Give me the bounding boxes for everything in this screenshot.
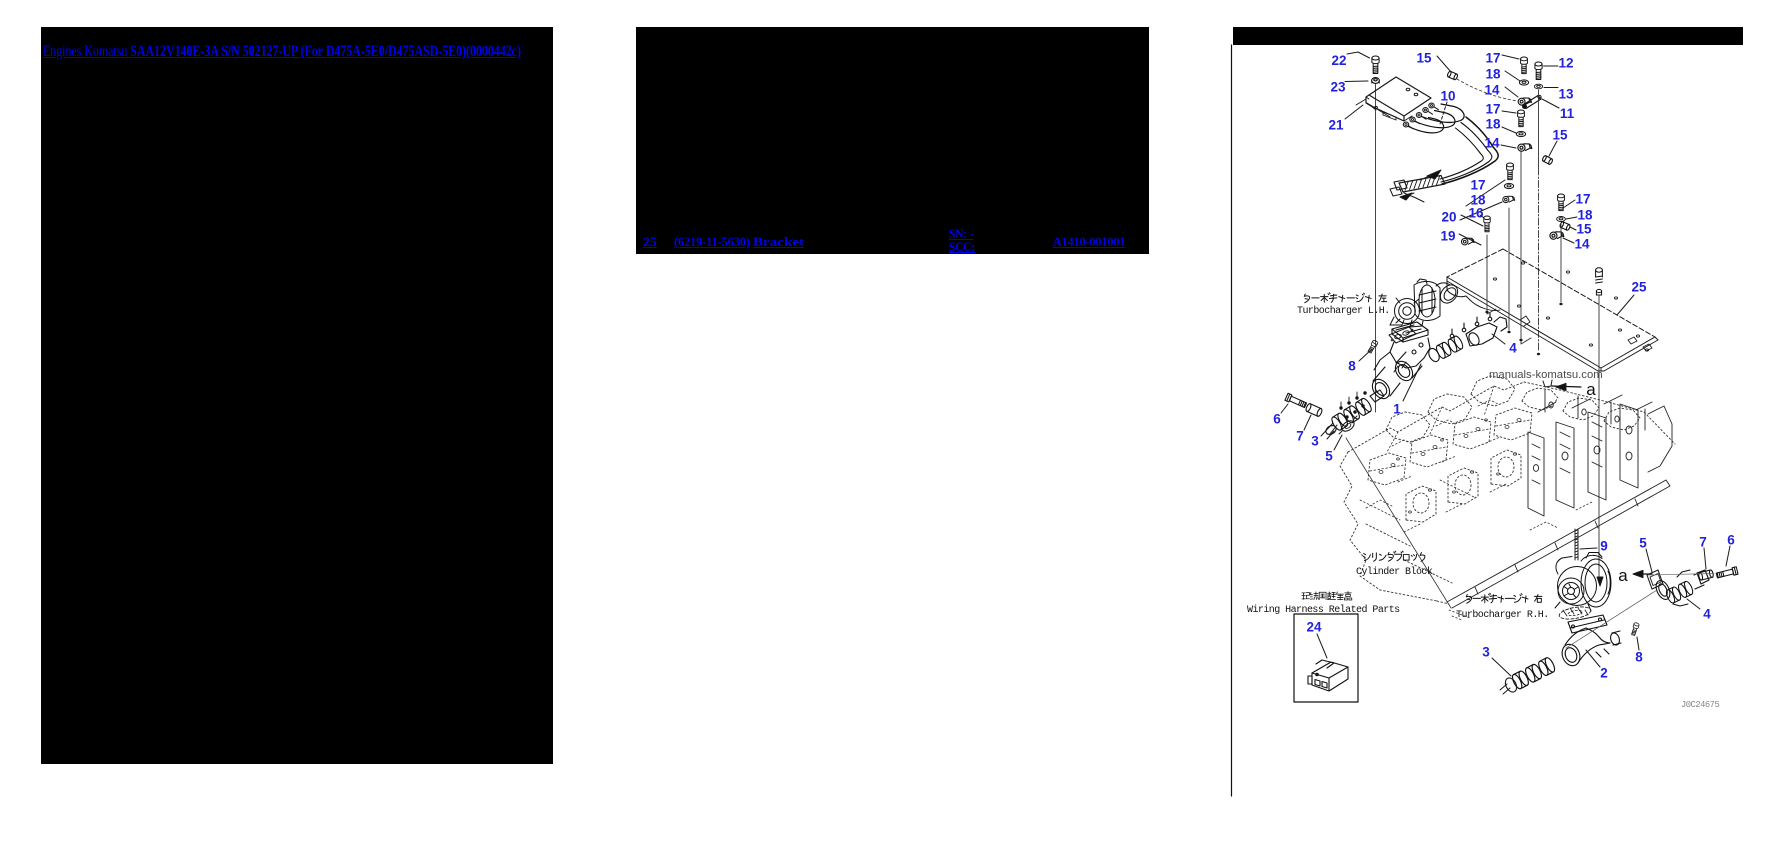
assembly line from 17b: [1520, 152, 1522, 262]
harness tail: [1404, 193, 1424, 202]
drop hook a: [1487, 309, 1496, 314]
svg-text:3: 3: [1482, 645, 1490, 660]
leader 4a: [1492, 334, 1505, 344]
svg-text:17: 17: [1575, 192, 1590, 207]
leader 15d: [1570, 227, 1576, 230]
leader 7a: [1304, 415, 1311, 430]
svg-text:14: 14: [1574, 237, 1590, 252]
washer 18d: [1557, 217, 1566, 222]
svg-text:15: 15: [1552, 128, 1568, 143]
plate left flange detail: [1447, 277, 1470, 300]
block below rail: [1449, 610, 1470, 620]
harness end connector: [1394, 180, 1407, 190]
washer 18a: [1519, 80, 1528, 85]
svg-text:17: 17: [1470, 178, 1485, 193]
sheet ref: [1053, 234, 1132, 250]
svg-text:7: 7: [1699, 535, 1707, 550]
leader 2: [1586, 650, 1600, 667]
bolt 17b: [1518, 110, 1525, 127]
bolt 17d: [1558, 194, 1565, 211]
block top right edge: [1524, 382, 1675, 444]
bracket step: [1356, 99, 1376, 110]
leader 24: [1317, 634, 1327, 658]
top black bar: [1233, 27, 1743, 45]
assembly line from 17d: [1560, 223, 1562, 256]
part link: [674, 234, 756, 250]
engine block modules: [1386, 412, 1430, 442]
section arrowhead a upper: [1556, 383, 1566, 390]
block left edge: [1340, 452, 1437, 601]
leader 19: [1459, 234, 1481, 245]
svg-text:4: 4: [1703, 607, 1711, 622]
connector 24: [1308, 660, 1348, 691]
land dots: [1486, 311, 1488, 313]
left vertical rule: [1231, 45, 1233, 796]
assembly line from 17c: [1508, 208, 1510, 272]
svg-text:24: 24: [1306, 620, 1322, 635]
leader 25: [1617, 295, 1634, 315]
svg-text:18: 18: [1485, 67, 1501, 82]
harness loop 1: [1409, 118, 1444, 133]
middle black panel: [636, 27, 1149, 254]
turbo LH: [1390, 279, 1461, 327]
svg-text:3: 3: [1311, 434, 1319, 449]
svg-text:16: 16: [1468, 206, 1484, 221]
dashed line 4b to 2: [1566, 590, 1657, 648]
harness connector strip: [1399, 176, 1445, 193]
long diagonal to block: [1346, 438, 1451, 608]
svg-text:8: 8: [1635, 650, 1643, 665]
svg-text:20: 20: [1441, 210, 1456, 225]
svg-text:15: 15: [1576, 222, 1592, 237]
pin 15d: [1559, 221, 1570, 230]
leader 14b: [1501, 145, 1516, 148]
harness loop 3: [1422, 104, 1465, 122]
dashed line 4b axis: [1648, 574, 1714, 576]
drop line c: [1520, 262, 1522, 338]
svg-text:14: 14: [1484, 136, 1500, 151]
pin 15a: [1447, 71, 1458, 80]
arrow into turbo RH: [1597, 577, 1603, 586]
bellows 3b: [1511, 656, 1557, 690]
line from stud 9: [1598, 295, 1600, 578]
bracket plate 21: [1369, 77, 1431, 116]
assembly line from 22: [1375, 84, 1377, 412]
label turbo LH jp: [1304, 293, 1386, 303]
leader 4b: [1687, 599, 1700, 609]
bolt 22: [1372, 56, 1379, 74]
bolt 16: [1484, 216, 1490, 232]
leader 5a: [1334, 435, 1342, 450]
svg-text:23: 23: [1330, 80, 1346, 95]
screw 8a: [1367, 340, 1378, 354]
leader 17c: [1466, 180, 1505, 206]
svg-text:15: 15: [1416, 51, 1432, 66]
svg-text:a: a: [1618, 566, 1628, 585]
box 24: [1294, 614, 1358, 702]
spacer 7a: [1305, 403, 1323, 417]
title link: [43, 43, 685, 61]
leader 15a: [1437, 56, 1451, 72]
bolt 6b: [1716, 567, 1738, 579]
spacer 7b: [1698, 570, 1714, 581]
svg-text:10: 10: [1440, 89, 1455, 104]
svg-text:6: 6: [1727, 533, 1735, 548]
leader 14a: [1505, 87, 1518, 97]
drop line a: [1486, 278, 1488, 310]
leader 7b: [1704, 548, 1706, 569]
leader 23: [1345, 80, 1368, 83]
block rail feet: [1475, 499, 1638, 594]
svg-text:2: 2: [1600, 666, 1608, 681]
turbo LH gasket: [1389, 327, 1416, 343]
svg-text:22: 22: [1331, 53, 1346, 68]
svg-text:11: 11: [1560, 106, 1575, 121]
stud 9 thread: [1575, 529, 1578, 560]
leader 1: [1403, 364, 1421, 401]
clamp 14a: [1517, 96, 1531, 106]
bolt 6a: [1285, 393, 1307, 408]
leader 10: [1440, 102, 1447, 124]
manifold bolt lugs: [1394, 362, 1406, 372]
harness trunk outer: [1442, 117, 1498, 184]
drop hook c: [1521, 338, 1531, 344]
svg-text:21: 21: [1328, 118, 1344, 133]
clamp 19x: [1502, 194, 1515, 203]
svg-text:1: 1: [1393, 402, 1401, 417]
section line a upper: [1552, 386, 1581, 387]
label wiring jp: [1302, 592, 1352, 600]
leader 3a: [1321, 423, 1333, 436]
clamp 5b: [1647, 570, 1663, 589]
drop line e: [1560, 256, 1562, 302]
svg-text:19: 19: [1440, 229, 1455, 244]
washer 18b: [1516, 131, 1525, 136]
harness trunk mid: [1441, 123, 1492, 183]
leader 11: [1542, 99, 1559, 108]
clamp 14d: [1549, 230, 1564, 241]
leader 18a: [1505, 71, 1520, 81]
SN / SCC: [949, 227, 979, 254]
svg-text:5: 5: [1639, 536, 1647, 551]
svg-text:17: 17: [1485, 51, 1500, 66]
block top edge: [1348, 382, 1524, 452]
leader 9: [1580, 548, 1597, 549]
manifold left chain 3: [1330, 397, 1373, 432]
harness trunk inner: [1440, 128, 1483, 179]
screw 8b: [1631, 622, 1640, 636]
washer 13: [1534, 84, 1542, 89]
svg-text:7: 7: [1296, 429, 1304, 444]
leader 22: [1347, 52, 1370, 58]
leader 20: [1461, 215, 1483, 226]
manifold center 1: [1369, 322, 1430, 402]
drop line b: [1508, 272, 1510, 330]
nut 23: [1372, 78, 1380, 84]
svg-text:a: a: [1586, 380, 1596, 399]
plate 25 outline: [1447, 249, 1503, 277]
block extra fragments: [1392, 440, 1412, 446]
block inner dotted diag: [1360, 386, 1494, 520]
leader 18b: [1502, 127, 1516, 133]
stud for section a: [1543, 380, 1552, 387]
harness terminal stubs: [1409, 126, 1414, 129]
section arrowhead a lower: [1633, 570, 1643, 577]
block bottom rail: [1447, 480, 1670, 608]
bar 11: [1523, 96, 1541, 109]
bolt 17c: [1507, 163, 1514, 180]
svg-text:25: 25: [1631, 280, 1647, 295]
stud 9 top: [1596, 268, 1603, 295]
clamp 14b: [1517, 142, 1532, 153]
connector 4b: [1665, 580, 1695, 604]
leader 17b: [1502, 111, 1516, 113]
label cylblock jp: [1363, 551, 1425, 561]
leader 6b: [1726, 546, 1730, 566]
svg-text:Turbocharger R.H.: Turbocharger R.H.: [1456, 609, 1549, 621]
pin 15b: [1542, 155, 1553, 165]
assembly line from 12: [1538, 90, 1540, 168]
label turbo RH jp: [1466, 593, 1542, 603]
gasket 5a: [1340, 419, 1356, 434]
left black panel: [41, 27, 553, 764]
turbo RH: [1555, 553, 1611, 612]
bolt 12: [1535, 62, 1542, 80]
harness terminals: [1403, 122, 1408, 127]
svg-text:J0C24675: J0C24675: [1681, 700, 1719, 710]
bracket holes: [1406, 88, 1410, 90]
svg-text:14: 14: [1484, 83, 1500, 98]
leader 6a: [1281, 404, 1288, 413]
leader 13: [1544, 87, 1558, 89]
harness arrow 2: [1400, 193, 1412, 200]
harness guide wire from 15: [1457, 79, 1517, 101]
elbow 2: [1559, 615, 1621, 668]
manifold right chain 4: [1435, 335, 1465, 360]
plate small squares: [1628, 337, 1637, 344]
svg-text:8: 8: [1348, 359, 1356, 374]
leader 17a: [1502, 55, 1519, 59]
harness loop 2: [1415, 111, 1455, 128]
leader 8b: [1637, 637, 1639, 650]
leader 12: [1544, 65, 1559, 67]
svg-text:4: 4: [1509, 341, 1517, 356]
leader 16: [1480, 215, 1484, 218]
svg-text:13: 13: [1558, 87, 1574, 102]
block lower left lines: [1366, 524, 1452, 604]
leader 18c: [1460, 202, 1502, 220]
leader 15b: [1549, 141, 1557, 156]
svg-text:12: 12: [1558, 56, 1573, 71]
clamp 19: [1461, 236, 1474, 246]
svg-text:18: 18: [1577, 208, 1593, 223]
svg-text:5: 5: [1325, 449, 1333, 464]
item number 25: [643, 234, 656, 250]
block right end: [1528, 390, 1672, 516]
plate 25 notch: [1520, 316, 1530, 326]
leader 8a: [1359, 349, 1372, 361]
assembly line from 16: [1486, 235, 1488, 278]
svg-text:9: 9: [1600, 539, 1608, 554]
svg-text:Cylinder Block: Cylinder Block: [1356, 566, 1433, 578]
leader 17d: [1563, 200, 1575, 208]
harness arrow 1: [1427, 170, 1441, 179]
leader 3b: [1492, 658, 1511, 676]
svg-text:Turbocharger L.H.: Turbocharger L.H.: [1297, 305, 1390, 317]
turbo RH gasket: [1558, 605, 1591, 621]
leader 21: [1345, 105, 1363, 119]
svg-text:6: 6: [1273, 412, 1281, 427]
bolt 17a: [1521, 57, 1528, 74]
plate 25 holes: [1517, 305, 1520, 307]
svg-text:17: 17: [1485, 102, 1500, 117]
leader 18d: [1566, 217, 1577, 219]
leader 5b: [1646, 549, 1652, 572]
washer 18c: [1504, 183, 1513, 188]
leader 14d: [1563, 238, 1574, 243]
svg-text:18: 18: [1485, 117, 1501, 132]
